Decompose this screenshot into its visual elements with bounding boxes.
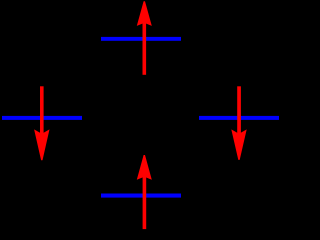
spin-down arrow (right) (231, 86, 246, 160)
spin-down arrow (left) (34, 86, 49, 160)
spin-up arrow (top) (137, 1, 152, 75)
energy level line (bottom) (101, 194, 181, 198)
energy level line (right) (199, 116, 279, 120)
energy level line (top) (101, 37, 181, 41)
energy level line (left) (2, 116, 82, 120)
spin-up arrow (bottom) (137, 155, 152, 229)
